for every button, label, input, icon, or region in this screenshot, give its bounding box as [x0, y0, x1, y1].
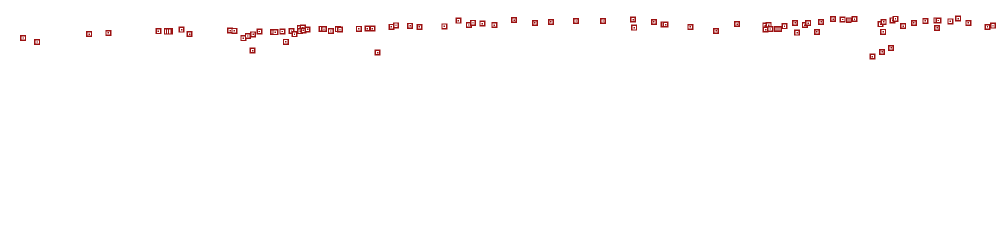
point 6 — [179, 27, 185, 33]
point 58 — [762, 23, 768, 29]
point 37 — [407, 23, 413, 29]
point 88 — [965, 20, 971, 26]
point 12 — [250, 31, 256, 37]
point 85 — [934, 25, 940, 31]
point 59 — [766, 22, 772, 28]
point 72 — [869, 54, 875, 60]
point 4 — [105, 30, 111, 36]
point 54 — [663, 22, 669, 28]
point 35 — [388, 24, 394, 30]
point 14 — [256, 29, 262, 35]
point 87 — [955, 16, 961, 22]
point 82 — [922, 18, 928, 24]
point 67 — [814, 29, 820, 35]
point 63 — [792, 20, 798, 26]
point 79 — [893, 16, 899, 22]
point 47 — [548, 19, 554, 25]
point 3 — [86, 31, 92, 37]
point 52 — [651, 19, 657, 25]
point 48 — [573, 18, 579, 24]
point 2 — [34, 39, 40, 45]
point 84 — [935, 18, 941, 24]
point 24 — [300, 27, 306, 33]
point 21 — [297, 25, 303, 31]
point 28 — [328, 28, 334, 34]
point 57 — [734, 21, 740, 27]
point 86 — [947, 18, 953, 24]
point 8 — [227, 28, 233, 34]
point 75 — [878, 21, 884, 27]
point 50 — [630, 17, 636, 23]
point 29 — [335, 26, 341, 32]
point 10 — [240, 35, 246, 41]
point 64 — [794, 30, 800, 36]
point 56 — [713, 28, 719, 34]
point 51 — [631, 25, 637, 31]
point 53 — [660, 21, 666, 27]
point 77 — [880, 29, 886, 35]
point 43 — [479, 21, 485, 27]
point 62 — [782, 23, 788, 29]
points: merged cluster of 3 overlapping markers — [164, 28, 173, 34]
point 36 — [393, 22, 399, 28]
point 41 — [466, 22, 472, 28]
point 18 — [283, 39, 289, 45]
point 89 — [985, 24, 991, 30]
point 15 — [270, 29, 276, 35]
point 27 — [321, 26, 327, 32]
point 76 — [881, 19, 887, 25]
point 38 — [416, 24, 422, 30]
point 46 — [532, 20, 538, 26]
point 7 — [187, 31, 193, 37]
point 78 — [890, 17, 896, 23]
point 13 — [250, 48, 256, 54]
point 34 — [375, 50, 381, 56]
point 65 — [802, 22, 808, 28]
points: merged cluster of 3 overlapping markers — [774, 26, 782, 32]
point 22 — [300, 25, 306, 31]
point 32 — [364, 26, 370, 32]
point 70 — [840, 17, 846, 23]
point 11 — [245, 33, 251, 39]
point 66 — [805, 20, 811, 26]
point 25 — [305, 26, 311, 32]
scatter plot strip of open-square markers — [0, 0, 998, 68]
point 80 — [900, 23, 906, 29]
point 5 — [155, 28, 161, 34]
point 26 — [319, 26, 325, 32]
point 20 — [292, 31, 298, 37]
point 60 — [763, 27, 769, 33]
point 44 — [491, 22, 497, 28]
point 42 — [470, 20, 476, 26]
point 68 — [818, 19, 824, 25]
points: merged pair of overlapping markers — [846, 17, 852, 22]
point 71 — [852, 16, 858, 22]
point 30 — [337, 27, 343, 33]
point 55 — [687, 24, 693, 30]
point 33 — [369, 26, 375, 32]
point 74 — [888, 45, 894, 51]
point 45 — [511, 17, 517, 23]
point 17 — [279, 29, 285, 35]
point 69 — [830, 16, 836, 22]
point 49 — [600, 18, 606, 24]
point 1 — [20, 35, 26, 41]
point 19 — [289, 28, 295, 34]
point 61 — [767, 26, 773, 32]
point 90 — [990, 23, 996, 29]
point 23 — [297, 28, 303, 34]
point 40 — [455, 18, 461, 24]
point 31 — [356, 26, 362, 32]
point 39 — [441, 23, 447, 29]
point 16 — [272, 29, 278, 35]
point 81 — [911, 20, 917, 26]
point 83 — [933, 17, 939, 23]
point 9 — [231, 28, 237, 34]
point 73 — [879, 49, 885, 55]
